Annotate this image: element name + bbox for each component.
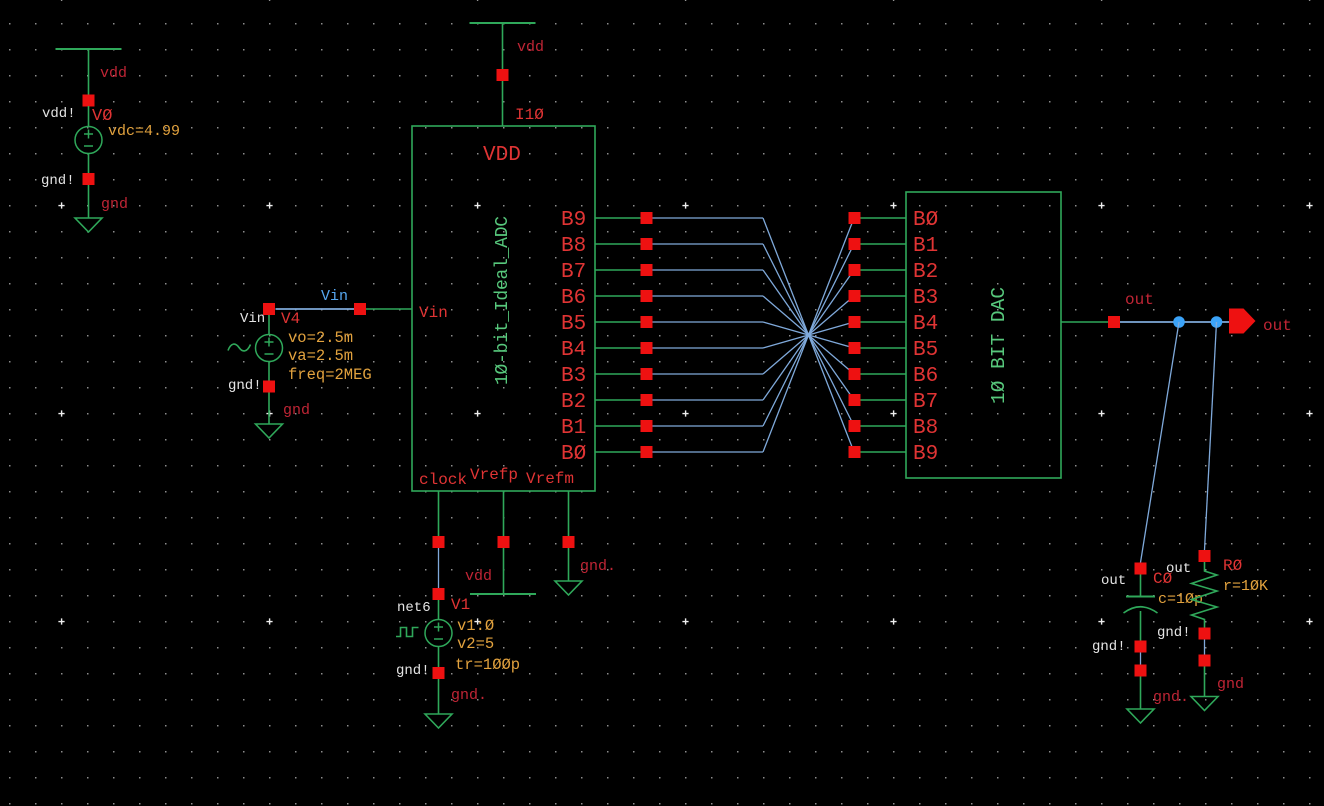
pin Vin of V4 (263, 303, 275, 315)
pin vdd! of V0 (83, 95, 95, 107)
svg-text:B6: B6 (561, 287, 586, 310)
wire V0 minus (88, 154, 90, 174)
svg-text:B4: B4 (913, 313, 938, 336)
svg-text:B9: B9 (913, 443, 938, 466)
svg-text:vdd!: vdd! (42, 106, 76, 122)
svg-text:gnd!: gnd! (396, 663, 430, 679)
junction dot 1 on net out (1173, 316, 1185, 328)
svg-text:r=1ØK: r=1ØK (1223, 578, 1268, 595)
svg-text:B2: B2 (913, 261, 938, 284)
wire gnd! (V1 bottom) (438, 679, 440, 714)
svg-text:vo=2.5m: vo=2.5m (288, 329, 353, 347)
vdd rail symbol (Vrefp, flipped) (470, 593, 536, 595)
pin top of R0 (1199, 550, 1211, 562)
wire to ground (R0) (1204, 667, 1206, 697)
pin gnd! of V0 (83, 173, 95, 185)
pin gnd! of V4 (263, 381, 275, 393)
pin VDD of I10 (497, 69, 509, 81)
sine wave glyph of V4 (228, 344, 251, 351)
wire C0 top (1140, 575, 1142, 596)
pin B1 of DAC (849, 238, 861, 250)
wire stub ADC pin B5 (595, 321, 647, 323)
svg-text:RØ: RØ (1223, 557, 1243, 575)
svg-text:Vin: Vin (321, 288, 348, 305)
wire net B5 crossover diagonal (763, 322, 854, 348)
pin B9 of I10 (641, 212, 653, 224)
wire C0 bottom (1140, 611, 1142, 641)
wire gnd! (V0 bottom) (88, 185, 90, 218)
svg-text:gnd.: gnd. (580, 558, 616, 575)
pin clock of I10 (433, 536, 445, 548)
wire stub ADC pin B8 (595, 243, 647, 245)
wire net B1 horizontal (653, 425, 764, 427)
wire stub ADC pin B2 (595, 399, 647, 401)
svg-text:vdd: vdd (465, 568, 492, 585)
svg-text:1Ø BIT DAC: 1Ø BIT DAC (988, 287, 1010, 404)
wire net B0 horizontal (653, 451, 764, 453)
svg-text:B8: B8 (913, 417, 938, 440)
vdd rail symbol (V0 top) (56, 48, 122, 50)
pin B0 of I10 (641, 446, 653, 458)
wire net B2 crossover diagonal (763, 270, 854, 400)
svg-text:v2=5: v2=5 (457, 635, 494, 653)
wire stub DAC pin B3 (861, 295, 907, 297)
wire net B9 crossover diagonal (763, 218, 854, 452)
svg-text:out: out (1166, 561, 1191, 577)
wire stub DAC out pin (1061, 321, 1108, 323)
svg-text:net6: net6 (397, 600, 431, 616)
pin B6 of I10 (641, 290, 653, 302)
wire net B4 horizontal (653, 347, 764, 349)
wire gnd! (V4 bottom) (268, 393, 270, 425)
pin B8 of DAC (849, 420, 861, 432)
svg-text:I1Ø: I1Ø (515, 106, 544, 124)
wire gnd! (R0) (1204, 640, 1206, 655)
ground symbol (V1) (425, 714, 452, 728)
pin B1 of I10 (641, 420, 653, 432)
svg-text:gnd: gnd (283, 402, 310, 419)
pin gnd! symbol (C0) (1135, 665, 1147, 677)
wire stub DAC pin B1 (861, 243, 907, 245)
wire stub ADC pin B6 (595, 295, 647, 297)
pin B4 of DAC (849, 316, 861, 328)
pin gnd! of V1 (433, 667, 445, 679)
svg-text:gnd!: gnd! (228, 378, 262, 394)
wire stub DAC pin B0 (861, 217, 907, 219)
svg-text:B8: B8 (561, 235, 586, 258)
ground symbol (R0) (1191, 697, 1218, 711)
wire net B4 crossover diagonal (763, 322, 854, 348)
svg-text:B1: B1 (913, 235, 938, 258)
svg-text:c=1Øp: c=1Øp (1158, 591, 1203, 608)
svg-text:B6: B6 (913, 365, 938, 388)
svg-text:VDD: VDD (483, 144, 521, 167)
wire V0 plus (88, 106, 90, 127)
svg-text:freq=2MEG: freq=2MEG (288, 366, 372, 384)
wire V1 minus (438, 647, 440, 668)
wire gnd! (C0) (1140, 653, 1142, 665)
svg-text:out: out (1101, 573, 1126, 589)
svg-text:B4: B4 (561, 339, 586, 362)
wire vdd to I10 VDD (502, 23, 504, 126)
svg-text:BØ: BØ (561, 443, 586, 466)
pin top of C0 (1135, 563, 1147, 575)
svg-text:gnd: gnd (1217, 676, 1244, 693)
wire stub ADC pin B1 (595, 425, 647, 427)
svg-text:gnd!: gnd! (1157, 625, 1191, 641)
svg-text:B3: B3 (913, 287, 938, 310)
wire net B5 horizontal (653, 321, 764, 323)
pin B5 of DAC (849, 342, 861, 354)
wire stub DAC pin B7 (861, 399, 907, 401)
wire net B0 crossover diagonal (763, 218, 854, 452)
wire stub DAC pin B6 (861, 373, 907, 375)
wire stub DAC pin B4 (861, 321, 907, 323)
wire stub ADC pin B7 (595, 269, 647, 271)
pin B7 of DAC (849, 394, 861, 406)
DAC body (906, 192, 1061, 478)
svg-text:v1:Ø: v1:Ø (457, 617, 494, 635)
pin B2 of DAC (849, 264, 861, 276)
svg-text:B7: B7 (913, 391, 938, 414)
wire net out to C0 (1141, 322, 1180, 563)
wire net net6 (438, 548, 440, 588)
wire net B7 crossover diagonal (763, 270, 854, 400)
pin B8 of I10 (641, 238, 653, 250)
pin bottom of R0 (1199, 628, 1211, 640)
wire to ground (C0) (1140, 677, 1142, 710)
svg-text:va=2.5m: va=2.5m (288, 347, 353, 365)
pin B0 of DAC (849, 212, 861, 224)
svg-text:vdc=4.99: vdc=4.99 (108, 123, 180, 140)
svg-text:B5: B5 (913, 339, 938, 362)
wire stub ADC pin B0 (595, 451, 647, 453)
wire net B8 crossover diagonal (763, 244, 854, 426)
svg-text:vdd: vdd (517, 39, 544, 56)
svg-text:B5: B5 (561, 313, 586, 336)
wire net out (1120, 321, 1229, 323)
svg-text:V1: V1 (451, 596, 470, 614)
wire stub DAC pin B8 (861, 425, 907, 427)
resistor R0 (1192, 562, 1218, 628)
svg-text:V4: V4 (281, 310, 300, 328)
voltage source V1 (425, 620, 452, 647)
wire stub Vrefp pin (503, 491, 505, 536)
ground symbol (V0) (75, 218, 102, 232)
wire stub DAC pin B9 (861, 451, 907, 453)
wire stub ADC pin B4 (595, 347, 647, 349)
junction dot 2 on net out (1211, 316, 1223, 328)
wire net B6 crossover diagonal (763, 296, 854, 374)
svg-text:BØ: BØ (913, 209, 938, 232)
wire stub ADC pin B3 (595, 373, 647, 375)
capacitor C0 (1126, 596, 1155, 598)
svg-text:gnd.: gnd. (451, 687, 487, 704)
voltage source V4 (256, 335, 283, 362)
svg-text:tr=1ØØp: tr=1ØØp (455, 656, 520, 674)
ground symbol (C0) (1127, 709, 1154, 723)
wire Vrefp to vdd (503, 548, 505, 594)
wire V4 plus (268, 315, 270, 335)
wire V1 plus (438, 600, 440, 620)
wire stub DAC pin B2 (861, 269, 907, 271)
wire net B2 horizontal (653, 399, 764, 401)
pin B3 of DAC (849, 290, 861, 302)
voltage source V0 (75, 127, 102, 154)
pin gnd! symbol (R0) (1199, 655, 1211, 667)
pin B3 of I10 (641, 368, 653, 380)
pin B6 of DAC (849, 368, 861, 380)
pulse wave glyph of V1 (396, 628, 419, 637)
svg-text:gnd!: gnd! (1092, 639, 1126, 655)
wire net out to R0 (1205, 322, 1217, 550)
svg-text:Vin: Vin (419, 304, 448, 322)
svg-text:B3: B3 (561, 365, 586, 388)
pin B4 of I10 (641, 342, 653, 354)
wire V4 minus (268, 362, 270, 381)
svg-text:B2: B2 (561, 391, 586, 414)
wire net B9 horizontal (653, 217, 764, 219)
svg-text:out: out (1125, 291, 1154, 309)
wire Vrefm to gnd (568, 548, 570, 581)
wire stub ADC pin B9 (595, 217, 647, 219)
svg-text:clock: clock (419, 471, 467, 489)
svg-text:Vrefm: Vrefm (526, 470, 574, 488)
wire stub Vrefm pin (568, 491, 570, 536)
wire net B7 horizontal (653, 269, 764, 271)
pin out of DAC (1108, 316, 1120, 328)
vdd rail symbol (I10 top) (470, 22, 536, 24)
pin B9 of DAC (849, 446, 861, 458)
pin Vrefm of I10 (563, 536, 575, 548)
svg-text:B1: B1 (561, 417, 586, 440)
svg-text:gnd: gnd (101, 196, 128, 213)
pin B5 of I10 (641, 316, 653, 328)
pin B7 of I10 (641, 264, 653, 276)
ADC body I10 (412, 126, 595, 491)
wire stub clock pin (438, 491, 440, 536)
wire net B3 crossover diagonal (763, 296, 854, 374)
pin Vrefp of I10 (498, 536, 510, 548)
pin B2 of I10 (641, 394, 653, 406)
wire stub DAC pin B5 (861, 347, 907, 349)
svg-text:gnd!: gnd! (41, 173, 75, 189)
pin bottom of C0 (1135, 641, 1147, 653)
svg-text:Vrefp: Vrefp (470, 466, 518, 484)
wire net B6 horizontal (653, 295, 764, 297)
ground symbol (V4) (256, 424, 283, 438)
svg-text:gnd.: gnd. (1153, 689, 1189, 706)
pin top of V1 (433, 588, 445, 600)
pin Vin of ADC I10 (354, 303, 366, 315)
ground symbol (Vrefm) (555, 581, 582, 595)
wire stub ADC Vin pin (366, 308, 412, 310)
svg-text:Vin: Vin (240, 311, 265, 327)
svg-text:vdd: vdd (100, 65, 127, 82)
wire net Vin (276, 308, 355, 310)
wire net B1 crossover diagonal (763, 244, 854, 426)
svg-text:B7: B7 (561, 261, 586, 284)
svg-text:1Ø-bit_Ideal_ADC: 1Ø-bit_Ideal_ADC (493, 216, 513, 385)
wire vdd! (V0 top) (88, 49, 90, 95)
svg-text:out: out (1263, 317, 1292, 335)
svg-text:B9: B9 (561, 209, 586, 232)
wire net B3 horizontal (653, 373, 764, 375)
wire net B8 horizontal (653, 243, 764, 245)
output port symbol out (1229, 309, 1256, 334)
